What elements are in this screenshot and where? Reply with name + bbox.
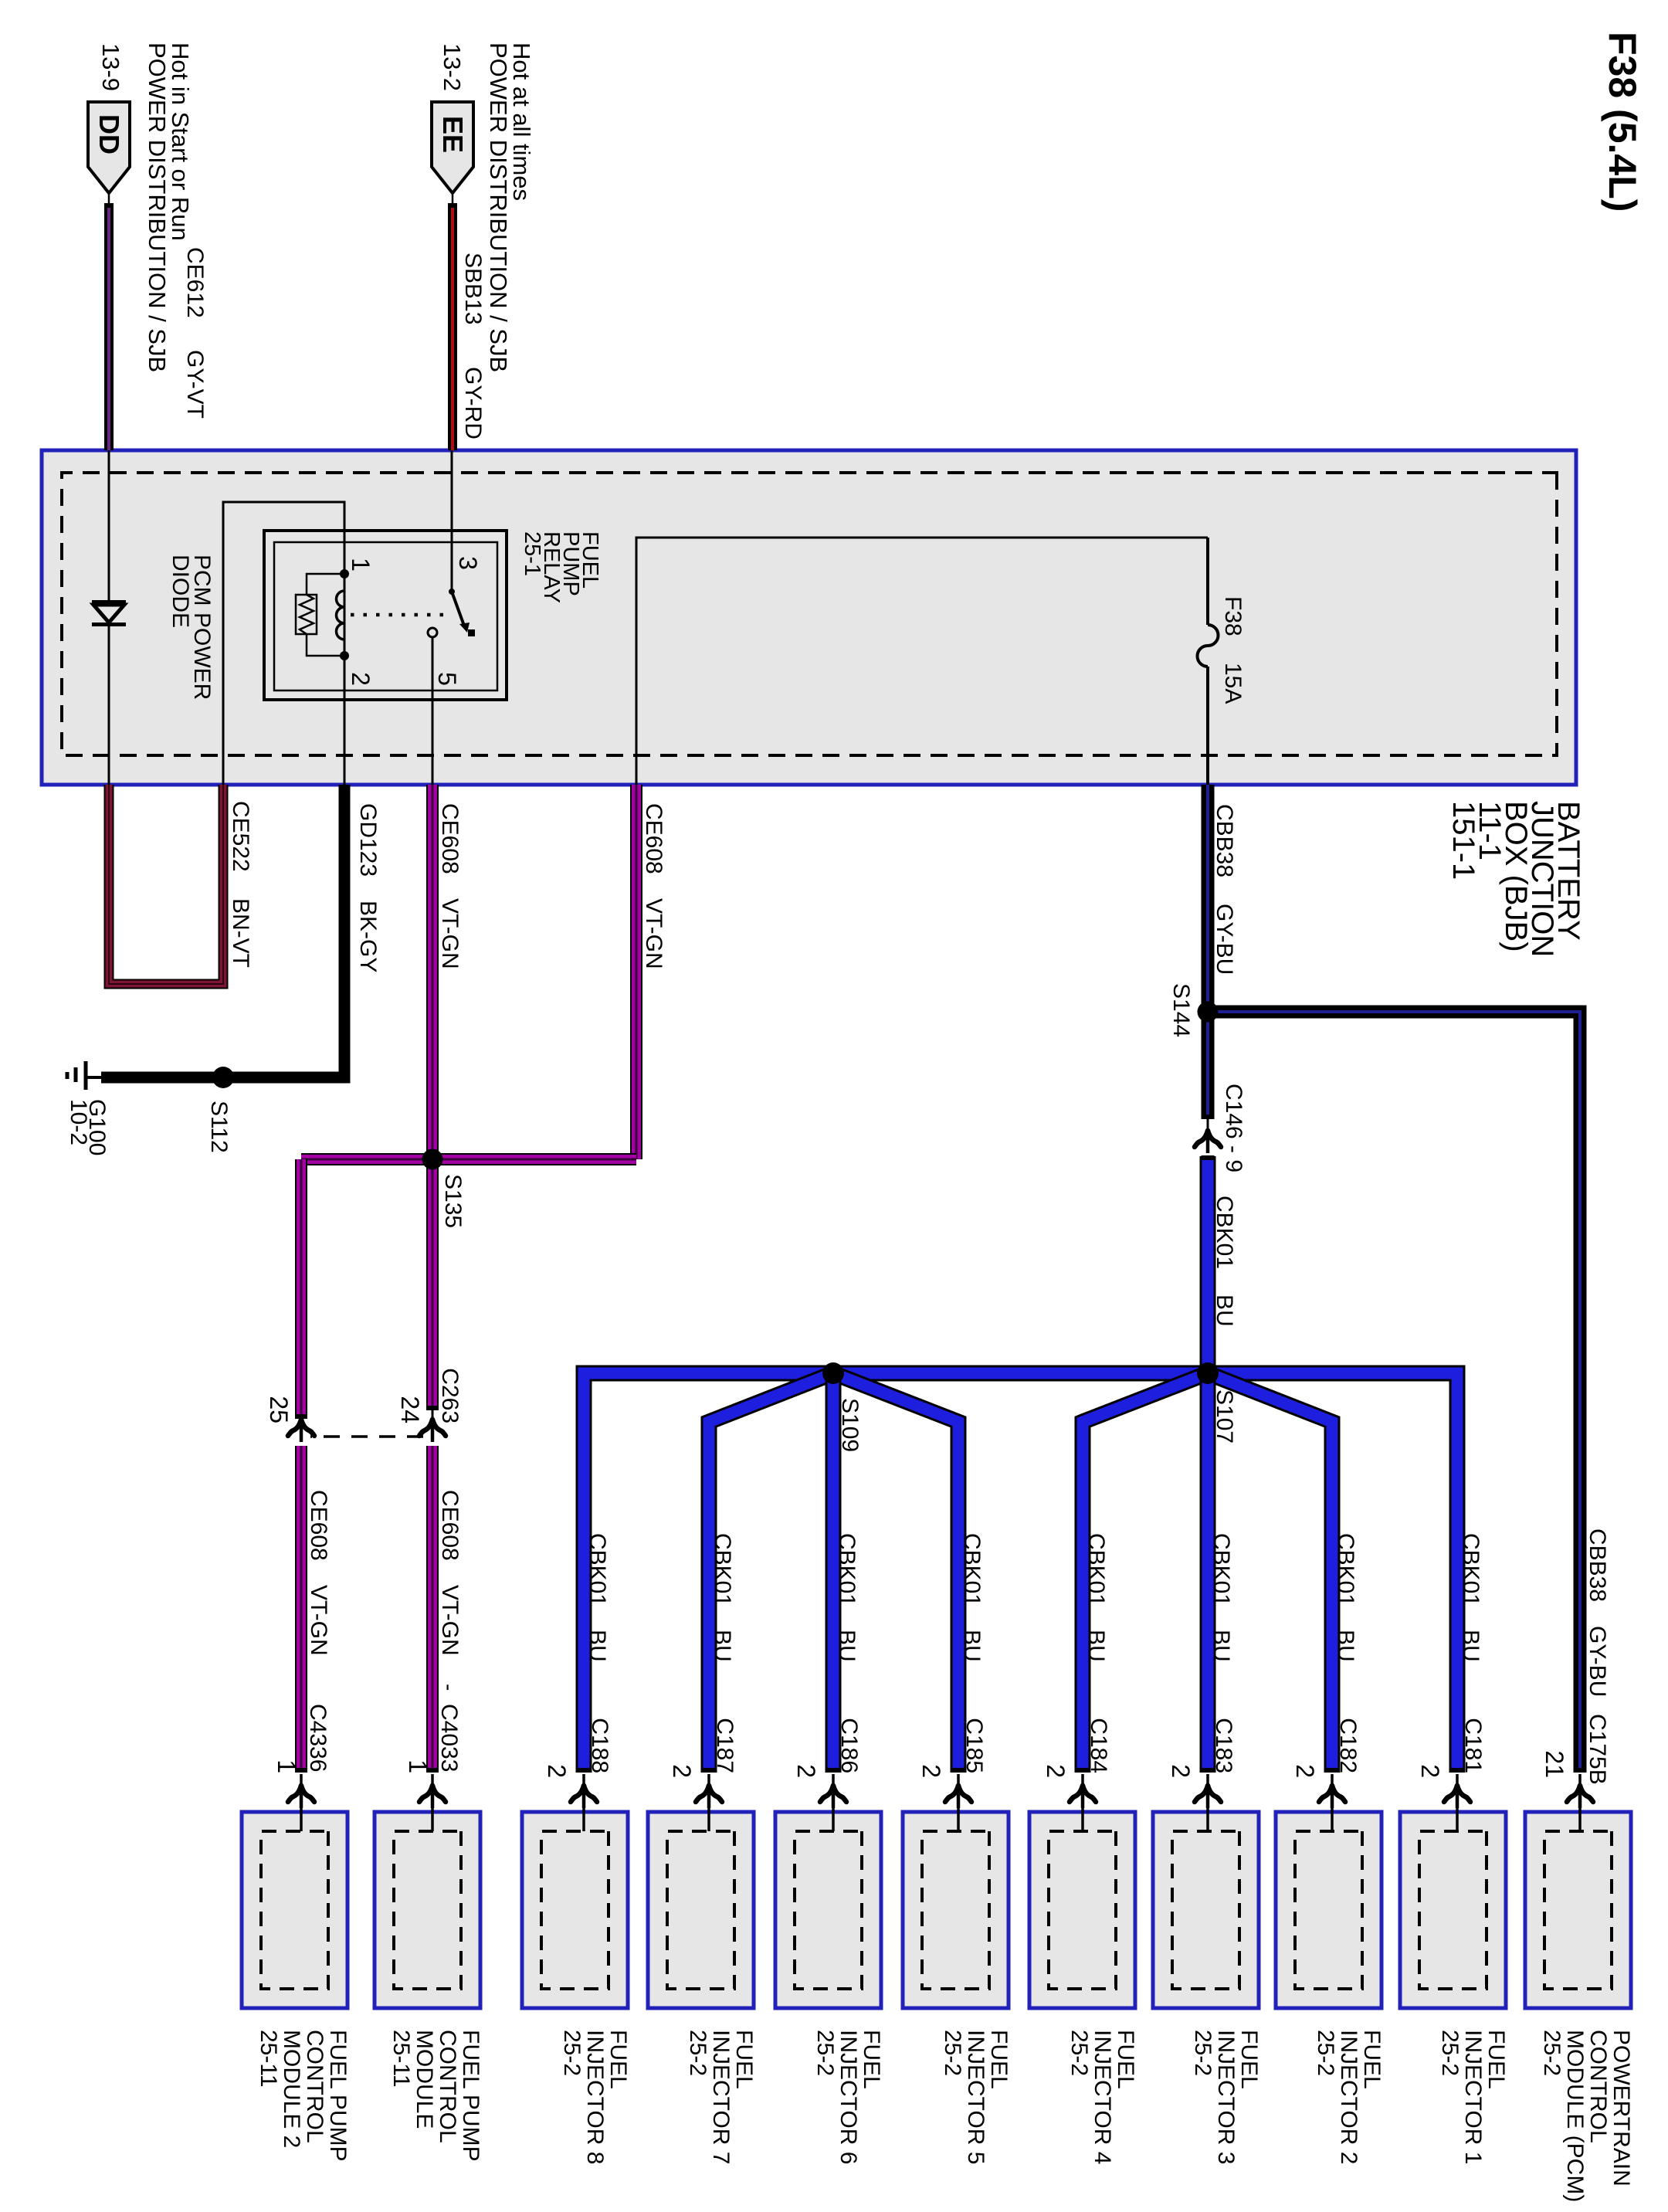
svg-text:BU: BU xyxy=(1083,1630,1109,1662)
svg-text:25-2: 25-2 xyxy=(1437,2030,1463,2076)
svg-text:CBK01: CBK01 xyxy=(585,1533,610,1606)
svg-text:BU: BU xyxy=(1333,1630,1358,1662)
cap CE608 end C4336 xyxy=(295,1768,307,1773)
svg-text:25-2: 25-2 xyxy=(1313,2030,1338,2076)
svg-text:VT-GN: VT-GN xyxy=(306,1585,331,1656)
cap CBK01 end C184 xyxy=(1075,1768,1091,1773)
svg-text:10-2: 10-2 xyxy=(66,1099,91,1145)
svg-text:C185: C185 xyxy=(961,1718,987,1773)
wire CBK01 bus with C181 and C188 runs xyxy=(584,1373,1457,1771)
svg-text:FUEL: FUEL xyxy=(1483,2030,1509,2089)
cap SBB13 start xyxy=(448,203,457,208)
wire thin gap at C146 xyxy=(1207,1118,1209,1131)
wire fuse tap to CE608 feed xyxy=(636,538,1208,785)
wire anode feed to diode xyxy=(108,450,110,602)
svg-text:5: 5 xyxy=(433,672,461,686)
cap CBK01 end C182 xyxy=(1324,1768,1341,1773)
svg-text:INJECTOR 8: INJECTOR 8 xyxy=(582,2030,608,2164)
wire diagonal S107 to C184 run xyxy=(1083,1373,1208,1771)
svg-text:2: 2 xyxy=(1291,1764,1319,1778)
svg-text:VT-GN: VT-GN xyxy=(437,898,463,969)
svg-text:S112: S112 xyxy=(206,1101,232,1153)
svg-text:C182: C182 xyxy=(1335,1718,1361,1773)
svg-text:GY-RD: GY-RD xyxy=(460,367,486,439)
svg-text:25: 25 xyxy=(265,1396,293,1423)
splice S109 xyxy=(822,1362,844,1384)
svg-text:CBK01: CBK01 xyxy=(710,1533,735,1606)
wire entry into box FUEL INJECTOR 3 xyxy=(1206,1774,1209,1831)
svg-text:CE608: CE608 xyxy=(641,803,666,874)
wire CBB38 S144 to C146 xyxy=(1202,1012,1215,1118)
svg-text:FUEL: FUEL xyxy=(1236,2030,1262,2089)
connector arrow DD xyxy=(88,102,130,193)
svg-text:POWER DISTRIBUTION / SJB: POWER DISTRIBUTION / SJB xyxy=(144,42,171,372)
svg-text:C4033: C4033 xyxy=(436,1704,462,1772)
wire CBB38 GY-BU BJB to S144 xyxy=(1202,785,1215,1012)
battery junction box (BJB) outline xyxy=(42,450,1576,785)
relay coil inductor bumps xyxy=(337,591,345,640)
svg-text:VT-GN: VT-GN xyxy=(437,1585,463,1656)
svg-text:25-1: 25-1 xyxy=(520,531,544,576)
wire SBB13 GY-RD from EE to BJB xyxy=(448,204,457,450)
wire CE608 S135 to C263 xyxy=(426,1159,439,1410)
svg-text:2: 2 xyxy=(543,1764,571,1778)
svg-text:CBB38: CBB38 xyxy=(1212,804,1237,877)
box FUEL INJECTOR 4 xyxy=(1029,1812,1135,2008)
svg-text:2: 2 xyxy=(1042,1764,1070,1778)
svg-text:INJECTOR 3: INJECTOR 3 xyxy=(1213,2030,1239,2164)
wire diode cathode to BJB edge xyxy=(108,626,110,785)
wire relay pin 5 to BJB edge xyxy=(432,637,434,785)
cap CBK01 end C181 xyxy=(1449,1768,1466,1773)
svg-text:FUEL PUMP: FUEL PUMP xyxy=(325,2030,351,2162)
relay mechanical link dotted line xyxy=(351,613,443,617)
svg-text:BU: BU xyxy=(1212,1294,1237,1327)
svg-text:3: 3 xyxy=(454,556,482,570)
svg-text:GD123: GD123 xyxy=(355,803,381,877)
wire GD123 BK-GY to S112 and ground xyxy=(101,785,344,1077)
box FUEL INJECTOR 7 xyxy=(648,1812,754,2008)
svg-text:POWERTRAIN: POWERTRAIN xyxy=(1609,2030,1634,2187)
box FUEL PUMP CONTROL MODULE xyxy=(375,1812,480,2008)
wire C183 run from S107 xyxy=(1200,1373,1216,1771)
wire resistor leg right xyxy=(307,634,344,656)
svg-text:DD: DD xyxy=(93,114,125,154)
svg-text:25-2: 25-2 xyxy=(685,2030,710,2076)
svg-text:INJECTOR 4: INJECTOR 4 xyxy=(1090,2030,1115,2164)
svg-text:BU: BU xyxy=(959,1630,985,1662)
svg-text:21: 21 xyxy=(1541,1750,1568,1778)
wire CE522 inside BJB to relay coil xyxy=(223,502,344,785)
svg-text:INJECTOR 1: INJECTOR 1 xyxy=(1460,2030,1486,2164)
svg-text:BK-GY: BK-GY xyxy=(355,901,381,972)
svg-text:25-2: 25-2 xyxy=(1539,2030,1565,2076)
svg-text:GY-BU: GY-BU xyxy=(1212,904,1237,975)
svg-text:CE608: CE608 xyxy=(306,1490,331,1561)
wire thin gap at C263 xyxy=(432,1410,434,1421)
connector arrow into box FUEL INJECTOR 7 xyxy=(696,1786,722,1808)
wire diagonal S107 to C182 run xyxy=(1208,1373,1332,1771)
svg-text:CBK01: CBK01 xyxy=(1458,1533,1483,1606)
svg-text:CBB38: CBB38 xyxy=(1585,1528,1610,1602)
splice S107 xyxy=(1197,1362,1219,1384)
svg-text:25-2: 25-2 xyxy=(1066,2030,1092,2076)
wire CE608 VT-GN fuse-tap run xyxy=(630,785,642,1159)
cap CBK01 start after C146 xyxy=(1202,1155,1215,1160)
svg-text:13-2: 13-2 xyxy=(439,43,466,91)
wire entry into box FUEL INJECTOR 6 xyxy=(832,1774,835,1831)
wire CE522 BN-VT U-loop xyxy=(109,785,223,984)
splice S144 xyxy=(1198,1002,1219,1023)
svg-text:CBK01: CBK01 xyxy=(1209,1533,1234,1606)
wire DD tip link xyxy=(108,192,110,205)
cap CBB38 end at C146 xyxy=(1202,1114,1215,1119)
relay pin 2 terminal xyxy=(340,651,349,660)
svg-text:25-2: 25-2 xyxy=(940,2030,965,2076)
svg-text:C186: C186 xyxy=(836,1718,862,1773)
wire CE608 branch to arrow 25 xyxy=(295,1159,307,1418)
wire resistor leg left xyxy=(307,574,344,595)
svg-text:S144: S144 xyxy=(1168,983,1194,1037)
cap CE608 end C4033 xyxy=(426,1768,439,1773)
svg-text:C263: C263 xyxy=(437,1368,463,1423)
svg-text:MODULE 2: MODULE 2 xyxy=(279,2030,304,2148)
wire entry into box FUEL PUMP CONTROL MODULE xyxy=(431,1774,434,1831)
cap CBK01 end C186 xyxy=(826,1768,842,1773)
cap CBK01 end C187 xyxy=(701,1768,717,1773)
connector arrow 25 xyxy=(288,1420,314,1442)
wire entry into box FUEL INJECTOR 1 xyxy=(1456,1774,1459,1831)
wire relay coil line pin1-pin2 / GD123 exit xyxy=(344,574,346,785)
svg-text:BU: BU xyxy=(1209,1630,1234,1662)
PCM box POWERTRAIN CONTROL MODULE xyxy=(1525,1812,1631,2008)
svg-text:INJECTOR 7: INJECTOR 7 xyxy=(708,2030,734,2164)
box FUEL INJECTOR 8 xyxy=(522,1812,628,2008)
relay inner box xyxy=(274,542,497,690)
cap CBK01 end C185 xyxy=(951,1768,967,1773)
dashed link between arrows 25 and 24 xyxy=(310,1435,423,1438)
svg-text:25-11: 25-11 xyxy=(256,2030,281,2088)
svg-text:FUEL: FUEL xyxy=(1113,2030,1138,2089)
svg-text:BU: BU xyxy=(585,1630,610,1662)
svg-text:Hot at all times: Hot at all times xyxy=(508,42,535,201)
svg-text:C4336: C4336 xyxy=(305,1704,331,1772)
wire diagonal S109 to C185 run xyxy=(833,1373,958,1771)
wire entry into box FUEL INJECTOR 5 xyxy=(957,1774,960,1831)
svg-text:CBK01: CBK01 xyxy=(959,1533,985,1606)
svg-text:CE612: CE612 xyxy=(182,247,208,318)
relay FUEL PUMP RELAY outer box xyxy=(264,531,507,700)
wire diagonal S109 to C187 run xyxy=(709,1373,833,1771)
wire entry into box FUEL INJECTOR 8 xyxy=(582,1774,585,1831)
svg-text:CE522: CE522 xyxy=(228,801,253,872)
svg-text:151-1: 151-1 xyxy=(1446,801,1480,880)
wire CE612 GY-VT from DD to BJB xyxy=(104,204,114,450)
svg-text:2: 2 xyxy=(1167,1764,1195,1778)
wire entry into box FUEL PUMP CONTROL MODULE 2 xyxy=(300,1774,303,1831)
svg-text:24: 24 xyxy=(396,1396,424,1423)
connector arrow EE xyxy=(432,102,473,193)
svg-text:CE608: CE608 xyxy=(437,803,463,874)
svg-text:BU: BU xyxy=(834,1630,859,1662)
svg-text:MODULE (PCM): MODULE (PCM) xyxy=(1562,2030,1588,2202)
svg-text:C188: C188 xyxy=(587,1718,612,1773)
svg-text:13-9: 13-9 xyxy=(97,43,124,91)
svg-text:CBK01: CBK01 xyxy=(1333,1533,1358,1606)
cap CBK01 end C183 xyxy=(1200,1768,1216,1773)
connector arrow into box FUEL PUMP CONTROL MODULE xyxy=(419,1786,446,1808)
svg-text:2: 2 xyxy=(917,1764,945,1778)
svg-text:C187: C187 xyxy=(712,1718,737,1773)
cap CE608 end at arrow 25 xyxy=(295,1414,307,1419)
svg-text:BU: BU xyxy=(710,1630,735,1662)
cap CBK01 end C188 xyxy=(576,1768,592,1773)
connector arrow into box FUEL PUMP CONTROL MODULE 2 xyxy=(288,1786,314,1808)
svg-text:25-2: 25-2 xyxy=(559,2030,585,2076)
svg-text:MODULE: MODULE xyxy=(412,2030,437,2129)
connector arrow into box FUEL INJECTOR 6 xyxy=(820,1786,846,1808)
svg-text:FUEL: FUEL xyxy=(1359,2030,1385,2089)
svg-text:2: 2 xyxy=(668,1764,696,1778)
wire fuse to BJB edge xyxy=(1206,667,1209,785)
svg-text:F38 (5.4L): F38 (5.4L) xyxy=(1601,32,1644,212)
wire entry into box FUEL INJECTOR 4 xyxy=(1081,1774,1084,1831)
wire entry into box FUEL INJECTOR 7 xyxy=(707,1774,710,1831)
svg-text:VT-GN: VT-GN xyxy=(641,898,666,969)
wire CE608 after 25 to C4336 xyxy=(295,1446,307,1771)
svg-text:15A: 15A xyxy=(1220,663,1246,704)
wire entry into PCM box POWERTRAIN CONTROL MODULE xyxy=(1578,1774,1582,1831)
svg-text:CONTROL: CONTROL xyxy=(302,2030,327,2143)
svg-text:C175B: C175B xyxy=(1585,1714,1610,1785)
relay switch blade with arrowhead xyxy=(452,592,475,636)
svg-text:2: 2 xyxy=(347,672,375,686)
ground G100 symbol xyxy=(67,1061,101,1090)
wire fuse feed left xyxy=(1206,538,1209,625)
svg-text:EE: EE xyxy=(437,116,469,153)
wire CBK01 BU C146 to S107 xyxy=(1200,1156,1216,1373)
svg-text:GY-BU: GY-BU xyxy=(1585,1626,1610,1697)
splice S135 xyxy=(422,1149,443,1170)
svg-text:CBK01: CBK01 xyxy=(1212,1196,1237,1269)
svg-text:BU: BU xyxy=(1458,1630,1483,1662)
svg-text:25-2: 25-2 xyxy=(1190,2030,1215,2076)
BJB inner dashed border xyxy=(62,473,1557,755)
connector arrow into box FUEL INJECTOR 1 xyxy=(1444,1786,1470,1808)
splice S112 xyxy=(212,1067,234,1088)
svg-text:CBK01: CBK01 xyxy=(1083,1533,1109,1606)
svg-text:2: 2 xyxy=(792,1764,820,1778)
svg-text:INJECTOR 6: INJECTOR 6 xyxy=(836,2030,861,2164)
svg-text:FUEL: FUEL xyxy=(605,2030,631,2089)
svg-text:S135: S135 xyxy=(440,1174,466,1228)
wire EE tip link xyxy=(452,192,454,205)
svg-text:GY-VT: GY-VT xyxy=(182,350,208,419)
diode PCM POWER DIODE xyxy=(92,600,126,626)
cap CBB38 end C175B xyxy=(1574,1768,1587,1773)
svg-text:FUEL: FUEL xyxy=(859,2030,884,2089)
connector arrow into PCM box POWERTRAIN CONTROL MODULE xyxy=(1567,1786,1593,1808)
connector arrow into box FUEL INJECTOR 8 xyxy=(571,1786,597,1808)
svg-text:C184: C184 xyxy=(1086,1718,1111,1773)
svg-text:BN-VT: BN-VT xyxy=(228,898,253,968)
connector C263 arrow xyxy=(419,1420,446,1442)
svg-text:C146 - 9: C146 - 9 xyxy=(1221,1084,1246,1172)
svg-text:Hot in Start or Run: Hot in Start or Run xyxy=(167,42,194,241)
fuse F38 15A s-curve xyxy=(1198,625,1219,667)
connector arrow into box FUEL INJECTOR 2 xyxy=(1319,1786,1345,1808)
svg-text:POWER DISTRIBUTION / SJB: POWER DISTRIBUTION / SJB xyxy=(485,42,512,372)
svg-text:CE608: CE608 xyxy=(437,1490,463,1561)
wire entry into box FUEL INJECTOR 2 xyxy=(1331,1774,1334,1831)
box FUEL INJECTOR 2 xyxy=(1276,1812,1382,2008)
svg-text:F38: F38 xyxy=(1220,596,1246,636)
connector C146-9 arrow xyxy=(1195,1131,1221,1153)
wire CE608 VT-GN from relay pin 5 to S135 xyxy=(426,785,439,1159)
box FUEL INJECTOR 1 xyxy=(1400,1812,1506,2008)
svg-text:CBK01: CBK01 xyxy=(834,1533,859,1606)
relay pin 1 terminal xyxy=(340,569,349,578)
svg-text:-: - xyxy=(437,1684,461,1691)
connector arrow into box FUEL INJECTOR 5 xyxy=(945,1786,971,1808)
resistor inside relay (parallel with coil) xyxy=(296,595,317,634)
svg-text:C181: C181 xyxy=(1460,1718,1486,1773)
wire C186 run from S109 xyxy=(826,1373,842,1771)
svg-text:FUEL: FUEL xyxy=(731,2030,757,2089)
box FUEL INJECTOR 5 xyxy=(903,1812,1009,2008)
box FUEL INJECTOR 6 xyxy=(775,1812,881,2008)
svg-text:INJECTOR 2: INJECTOR 2 xyxy=(1336,2030,1361,2164)
svg-text:C183: C183 xyxy=(1211,1718,1236,1773)
connector arrow into box FUEL INJECTOR 4 xyxy=(1070,1786,1096,1808)
svg-text:DIODE: DIODE xyxy=(168,555,193,628)
box FUEL PUMP CONTROL MODULE 2 xyxy=(242,1812,347,2008)
svg-text:25-2: 25-2 xyxy=(812,2030,838,2076)
svg-text:FUEL: FUEL xyxy=(986,2030,1012,2089)
svg-text:1: 1 xyxy=(347,558,375,572)
wire CE608 vertical through S135 xyxy=(301,1153,636,1165)
wire CBB38 S144 up and to PCM xyxy=(1208,1012,1580,1771)
wire SBB13 inside BJB to relay pin 3 xyxy=(451,450,453,591)
svg-text:CONTROL: CONTROL xyxy=(1585,2030,1611,2143)
connector arrow into box FUEL INJECTOR 3 xyxy=(1195,1786,1221,1808)
wire CE608 after C263 to C4033 xyxy=(426,1446,439,1771)
relay pin 5 terminal circle xyxy=(428,628,437,637)
svg-text:CONTROL: CONTROL xyxy=(435,2030,460,2143)
svg-text:2: 2 xyxy=(1416,1764,1444,1778)
svg-text:INJECTOR 5: INJECTOR 5 xyxy=(963,2030,988,2164)
cap CE608 end at C263 xyxy=(426,1406,439,1410)
cap CE612 start xyxy=(104,203,114,208)
relay pin 3 terminal xyxy=(449,589,455,595)
svg-text:FUEL PUMP: FUEL PUMP xyxy=(458,2030,483,2162)
svg-text:SBB13: SBB13 xyxy=(460,253,486,324)
svg-text:25-11: 25-11 xyxy=(388,2030,414,2088)
box FUEL INJECTOR 3 xyxy=(1153,1812,1259,2008)
